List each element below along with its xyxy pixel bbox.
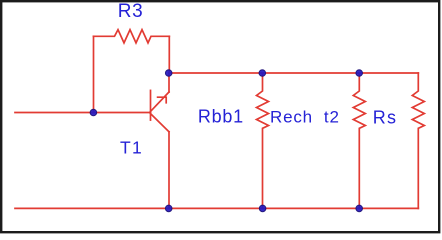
junction top Rbb1 node bbox=[259, 70, 266, 77]
junction top Rech node bbox=[356, 70, 363, 77]
junction top collector node bbox=[165, 70, 172, 77]
wire R3 right vertical bbox=[168, 36, 170, 73]
resistor Rbb1 bbox=[257, 73, 269, 208]
resistor Rech t2 bbox=[353, 73, 365, 208]
svg-text:Rech t2: Rech t2 bbox=[270, 107, 340, 126]
wire top bus bbox=[169, 72, 418, 74]
resistor Rs bbox=[412, 73, 424, 208]
svg-text:T1: T1 bbox=[120, 137, 143, 157]
svg-text:Rbb1: Rbb1 bbox=[198, 106, 244, 126]
svg-text:Rs: Rs bbox=[373, 108, 397, 128]
wire base input bbox=[15, 112, 151, 114]
junction base node bbox=[90, 109, 97, 116]
transistor T1 bbox=[151, 90, 170, 131]
wire collector vertical bbox=[168, 73, 170, 92]
junction bottom Rbb1 node bbox=[259, 205, 266, 212]
resistor R3 bbox=[94, 30, 170, 43]
junction bottom Rech node bbox=[356, 205, 363, 212]
wire emitter vertical bbox=[168, 132, 170, 209]
wire R3 left vertical bbox=[93, 36, 95, 112]
junction bottom emitter node bbox=[165, 205, 172, 212]
wire bottom bus bbox=[15, 207, 418, 209]
svg-text:R3: R3 bbox=[118, 1, 144, 22]
